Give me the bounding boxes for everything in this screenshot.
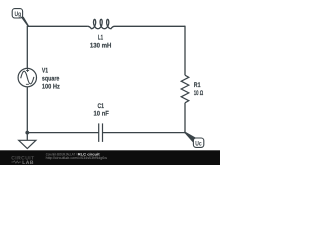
- wire right lower: R1 bottom to bottom-right corner: [184, 103, 186, 133]
- resistor R1 zigzag: [181, 75, 189, 103]
- node Uc flag pointer: [185, 132, 196, 141]
- svg-text:Uc: Uc: [195, 140, 202, 147]
- svg-text:C1: C1: [98, 103, 105, 110]
- svg-text:R1: R1: [194, 82, 201, 89]
- wire left: from top-left corner down to V1 top: [26, 26, 28, 69]
- svg-text:10 Ω: 10 Ω: [194, 90, 204, 97]
- wire left lower: V1 bottom down to ground junction: [26, 87, 28, 141]
- svg-text:Ug: Ug: [15, 11, 22, 18]
- svg-text:130 mH: 130 mH: [90, 42, 112, 49]
- wire bottom left segment: junction to C1 left plate: [27, 132, 98, 134]
- svg-text:LAB: LAB: [22, 160, 34, 165]
- wire segment: L1 to top-right corner: [115, 25, 186, 27]
- node Ug flag pointer: [20, 14, 28, 26]
- svg-text:V1: V1: [42, 67, 48, 74]
- wire right: top-right corner down to R1 top: [184, 26, 186, 75]
- V1 plus sign: [26, 69, 29, 72]
- V1 sine waveform: [21, 71, 34, 84]
- node Ug label box: [12, 9, 22, 18]
- capacitor C1 plates: [99, 123, 103, 141]
- node Uc label box: [193, 138, 203, 147]
- ground symbol: [19, 140, 36, 148]
- svg-text:square: square: [42, 75, 60, 82]
- voltage source V1 (square 100 Hz) circle: [18, 68, 36, 86]
- svg-text:http://circuitlab.com/c/634s53: http://circuitlab.com/c/634s53hf9dg6w: [46, 156, 108, 160]
- svg-text:100 Hz: 100 Hz: [42, 83, 60, 90]
- inductor L1 coil: [88, 19, 115, 28]
- V1 minus sign: [26, 83, 29, 85]
- junction node dot bottom-left: [25, 131, 29, 135]
- svg-text:10 nF: 10 nF: [94, 111, 109, 118]
- svg-text:L1: L1: [98, 35, 103, 42]
- wire bottom right segment: C1 right plate to bottom-right corner: [103, 132, 185, 134]
- wire segment: top-left corner to L1: [27, 25, 87, 27]
- watermark bar: [0, 150, 220, 165]
